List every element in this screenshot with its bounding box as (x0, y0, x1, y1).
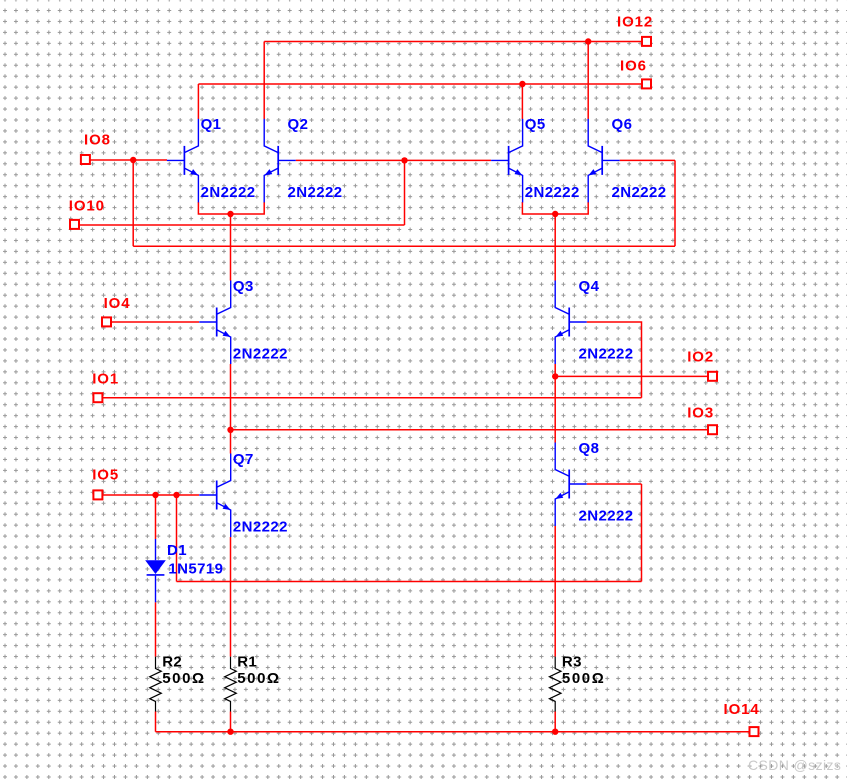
wire bottom rail to IO14 (156, 731, 749, 733)
wire emitter bridge to Q4 collector (554, 214, 556, 281)
port IO14 (750, 727, 759, 736)
svg-text:2N2222: 2N2222 (612, 184, 667, 201)
wire Q3 emitter down (230, 364, 232, 430)
wire Q8 base branch horizontal (177, 581, 642, 583)
wire Q6 base horizontal (620, 159, 675, 161)
svg-text:IO10: IO10 (69, 198, 105, 215)
wire Q8 base branch vertical right (641, 484, 643, 582)
junction IO8 node (130, 157, 136, 163)
port IO12 (642, 37, 651, 46)
transistor Q1 (NPN 2N2222) (167, 119, 199, 202)
transistor Q2 (NPN 2N2222) (264, 119, 296, 202)
junction bottom rail / R3 (552, 729, 558, 735)
port IO10 (70, 220, 79, 229)
resistor R1 500&#937; (225, 657, 237, 712)
port IO8 (81, 155, 90, 164)
svg-text:2N2222: 2N2222 (288, 184, 343, 201)
port IO6 (642, 79, 651, 88)
svg-text:Q4: Q4 (579, 278, 600, 295)
svg-text:IO12: IO12 (617, 14, 653, 31)
wire Q8 emitter to R3 (554, 526, 556, 657)
junction IO5/D1 (152, 492, 158, 498)
svg-text:2N2222: 2N2222 (579, 346, 634, 363)
svg-text:R3: R3 (562, 653, 582, 670)
wire IO2 horizontal (555, 375, 707, 377)
wire Q7 emitter to R1 (230, 537, 232, 657)
wire IO8 to Q1 base (90, 159, 168, 161)
wire R3 bottom (554, 712, 556, 732)
svg-text:IO5: IO5 (92, 467, 119, 484)
svg-text:2N2222: 2N2222 (233, 519, 288, 536)
junction IO2 node (552, 373, 558, 379)
svg-text:Q6: Q6 (612, 116, 633, 133)
junction IO5/Q8 base branch (173, 492, 179, 498)
resistor R3 500&#937; (549, 657, 561, 712)
wire emitter bridge to Q3 collector (230, 214, 232, 281)
wire IO1 horizontal (103, 397, 642, 399)
transistor Q6 (NPN 2N2222) (588, 119, 620, 202)
port IO4 (102, 317, 111, 326)
wire Q5/Q6 emitter bridge (522, 202, 588, 214)
wire Q6 base branch vertical (674, 160, 676, 246)
diode D1 1N5719 (145, 539, 166, 602)
wire D1 anode from IO5 node (155, 495, 157, 539)
wire Q4 base loop (587, 322, 642, 398)
svg-text:2N2222: 2N2222 (201, 184, 256, 201)
svg-text:2N2222: 2N2222 (579, 508, 634, 525)
wire IO4 to Q3 base (112, 321, 199, 323)
svg-text:IO1: IO1 (92, 370, 119, 387)
svg-text:D1: D1 (167, 542, 187, 559)
svg-text:IO3: IO3 (687, 404, 714, 421)
transistor Q4 (NPN 2N2222) (555, 281, 587, 365)
wire Q8 base horizontal (587, 483, 642, 485)
transistor Q5 (NPN 2N2222) (491, 119, 522, 202)
svg-text:IO14: IO14 (724, 701, 760, 718)
transistor Q8 (NPN 2N2222) (555, 443, 587, 527)
svg-text:Q2: Q2 (288, 116, 309, 133)
svg-text:Q7: Q7 (233, 451, 254, 468)
svg-text:IO8: IO8 (84, 132, 111, 149)
wire IO6 net vertical to Q5 collector (521, 84, 523, 119)
svg-text:IO2: IO2 (687, 348, 714, 365)
wire IO10 horizontal (80, 224, 405, 226)
wire IO6 net horizontal (198, 83, 641, 85)
junction bottom rail / R1 (227, 729, 233, 735)
port IO2 (708, 372, 717, 381)
svg-text:CSDN @szizs: CSDN @szizs (748, 757, 841, 773)
wire IO12 net top horizontal (264, 41, 641, 43)
wire IO12 net vertical to Q2 collector (263, 42, 265, 120)
resistor R2 500&#937; (150, 657, 162, 712)
svg-text:500Ω: 500Ω (162, 670, 205, 687)
svg-text:Q5: Q5 (525, 116, 546, 133)
transistor Q7 (NPN 2N2222) (199, 454, 231, 538)
wire IO5 to Q7 base (103, 494, 199, 496)
svg-text:500Ω: 500Ω (237, 670, 280, 687)
port IO1 (93, 393, 102, 402)
wire IO8 node down (132, 160, 134, 246)
wire IO12 net vertical to Q6 collector (587, 42, 589, 120)
svg-text:2N2222: 2N2222 (233, 346, 288, 363)
svg-text:Q8: Q8 (579, 440, 600, 457)
wire R1 bottom (230, 712, 232, 732)
svg-text:Q1: Q1 (201, 116, 222, 133)
junction IO12/Q6 collector (585, 38, 591, 44)
port IO5 (93, 490, 102, 499)
wire IO3 horizontal (231, 429, 708, 431)
svg-text:Q3: Q3 (233, 278, 254, 295)
wire Q7 collector up (230, 430, 232, 454)
wire R2 bottom (155, 712, 157, 732)
junction base row / IO10 (401, 157, 407, 163)
svg-text:2N2222: 2N2222 (525, 184, 580, 201)
port IO3 (708, 425, 717, 434)
wire D1 cathode to R2 (155, 602, 157, 656)
transistor Q3 (NPN 2N2222) (199, 281, 231, 365)
wire IO10 node vertical (404, 160, 406, 225)
wire Q8 base branch vertical down (176, 495, 178, 582)
svg-text:1N5719: 1N5719 (168, 561, 223, 578)
wire Q4 emitter down to Q8 collector (554, 364, 556, 443)
svg-text:IO4: IO4 (104, 295, 131, 312)
junction IO6/Q5 collector (519, 81, 525, 87)
wire Q2 base to Q5 base (296, 159, 491, 161)
wire Q1/Q2 emitter bridge (198, 202, 264, 214)
svg-text:IO6: IO6 (620, 58, 647, 75)
svg-text:R2: R2 (162, 653, 182, 670)
svg-text:500Ω: 500Ω (562, 670, 605, 687)
wire IO6 net vertical to Q1 collector (197, 84, 199, 119)
junction emitter bridge left (227, 211, 233, 217)
wire IO8 node long horizontal to Q6 base branch (133, 245, 675, 247)
svg-text:R1: R1 (237, 653, 257, 670)
junction emitter bridge right (552, 211, 558, 217)
junction IO3/Q3 emitter/Q7 collector (227, 427, 233, 433)
